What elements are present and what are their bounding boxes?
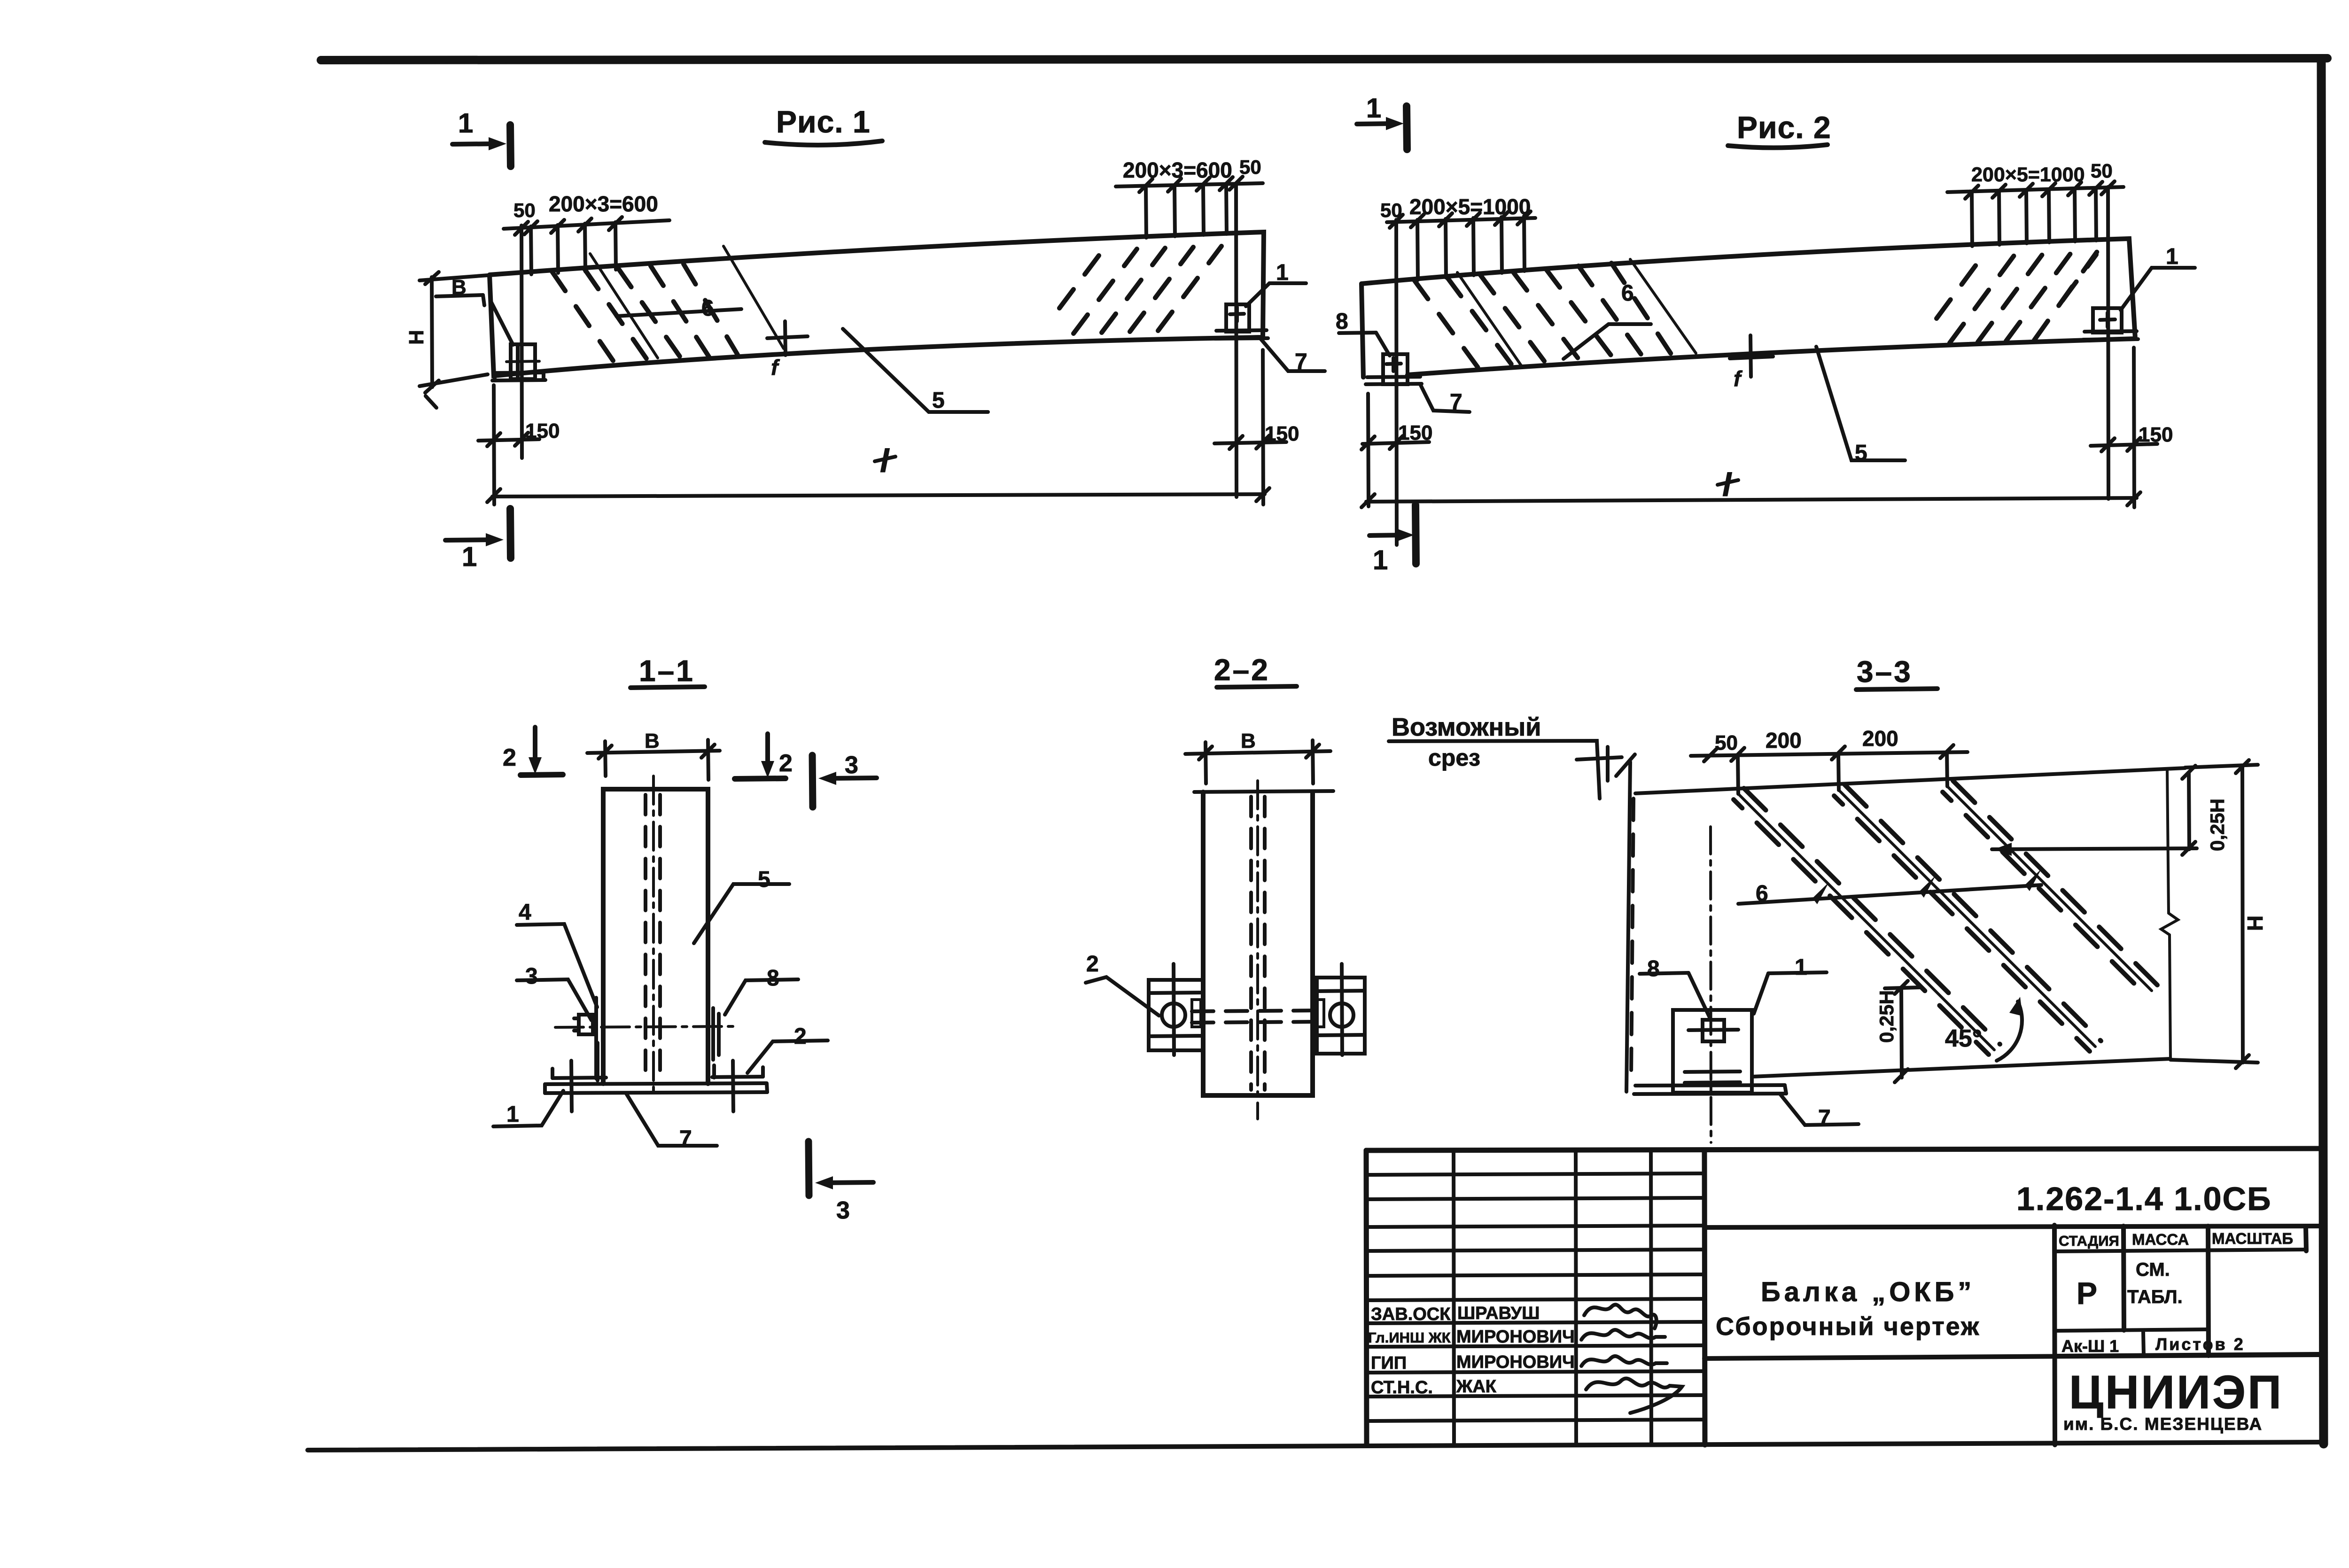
svg-text:МАСШТАБ: МАСШТАБ xyxy=(2212,1230,2293,1247)
sheet right border xyxy=(2321,61,2324,1444)
dim 150 (Fig.2 right) xyxy=(2091,348,2157,507)
beam Fig.2 outline xyxy=(1361,239,2135,375)
beam Fig.2 right support block xyxy=(2093,308,2122,333)
svg-text:МИРОНОВИЧ: МИРОНОВИЧ xyxy=(1456,1352,1575,1372)
support block (3-3) xyxy=(1673,1010,1752,1093)
svg-text:ТАБЛ.: ТАБЛ. xyxy=(2127,1287,2183,1307)
dim B (2-2) xyxy=(1185,740,1330,784)
svg-text:МИРОНОВИЧ: МИРОНОВИЧ xyxy=(1456,1327,1575,1347)
section cut mark 1 (top, Fig.2) xyxy=(1357,93,1407,149)
svg-text:Сборочный чертеж: Сборочный чертеж xyxy=(1716,1312,1980,1341)
dim 150 (Fig.1 left) xyxy=(478,385,539,505)
svg-text:5: 5 xyxy=(932,388,945,413)
leader 1 (1-1) xyxy=(493,1091,563,1126)
svg-text:ЦНИИЭП: ЦНИИЭП xyxy=(2069,1366,2283,1419)
title block left edge xyxy=(1366,1150,1367,1445)
angle 45 mark (3-3) xyxy=(1945,997,2022,1061)
right cells horizontal lines xyxy=(2054,1250,2319,1356)
beam Fig.1 left support block xyxy=(506,344,539,379)
svg-text:Гл.ИНШ ЖК: Гл.ИНШ ЖК xyxy=(1368,1329,1451,1346)
leader 6 with arrows (3-3) xyxy=(1738,869,2041,906)
svg-text:50: 50 xyxy=(513,199,536,221)
horizontal bolt axis (1-1) xyxy=(555,1026,733,1027)
svg-text:200×5=1000: 200×5=1000 xyxy=(1409,194,1531,219)
svg-text:7: 7 xyxy=(1818,1106,1831,1131)
stirrup ticks verticals (Fig.1 right) xyxy=(1146,185,1227,238)
svg-text:7: 7 xyxy=(679,1126,692,1151)
svg-text:1: 1 xyxy=(1276,260,1289,285)
sheet top border xyxy=(321,58,2327,60)
svg-text:1: 1 xyxy=(1795,955,1807,980)
svg-text:Н: Н xyxy=(405,330,428,345)
svg-text:8: 8 xyxy=(1336,309,1348,334)
svg-text:45°: 45° xyxy=(1945,1025,1982,1052)
svg-text:2: 2 xyxy=(794,1024,807,1049)
svg-text:1: 1 xyxy=(458,108,473,139)
signature 1 xyxy=(1584,1304,1657,1328)
svg-text:В: В xyxy=(1241,730,1256,753)
leader 7 (Fig.2 left) xyxy=(1420,384,1470,412)
camber mark f (Fig.2) xyxy=(1730,335,1773,377)
beam Fig.2 right support base plate xyxy=(2083,331,2138,340)
leader 6 (Fig.1) xyxy=(616,309,741,316)
leader 1 (Fig.2 right) xyxy=(2121,268,2195,310)
leader 7 (3-3) xyxy=(1780,1094,1859,1125)
hatch band left solid edges (Fig.1) xyxy=(590,246,784,358)
leader 3 (1-1) xyxy=(517,979,591,1020)
title Fig.1 xyxy=(765,104,882,145)
svg-text:1: 1 xyxy=(462,542,477,572)
right cells vertical lines xyxy=(2054,1225,2306,1445)
svg-text:2: 2 xyxy=(1086,952,1099,977)
svg-text:1: 1 xyxy=(1366,93,1381,124)
beam Fig.2 left edge xyxy=(1361,284,1363,377)
svg-text:200: 200 xyxy=(1766,728,1802,753)
leader 2 (1-1) xyxy=(747,1040,828,1073)
svg-text:3–3: 3–3 xyxy=(1857,655,1913,689)
svg-text:3: 3 xyxy=(836,1197,850,1224)
svg-text:200×3=600: 200×3=600 xyxy=(549,192,658,216)
svg-text:2: 2 xyxy=(779,750,793,777)
stirrup diagonal band B (3-3) xyxy=(1834,784,2101,1051)
svg-text:150: 150 xyxy=(525,419,560,442)
hidden channel edges dashed (2-2) xyxy=(1251,797,1265,1090)
svg-text:ЗАВ.ОСК: ЗАВ.ОСК xyxy=(1371,1304,1451,1324)
section cut mark 3 (top right of 1-1) xyxy=(812,752,877,807)
svg-text:Рис. 2: Рис. 2 xyxy=(1737,110,1831,145)
svg-text:СТ.Н.С.: СТ.Н.С. xyxy=(1371,1378,1433,1397)
camber mark f (Fig.1) xyxy=(767,321,808,355)
column web outline (1-1) xyxy=(603,789,708,1084)
svg-text:Н: Н xyxy=(2243,916,2267,931)
section cut mark 1 (bottom, Fig.1) xyxy=(445,509,511,572)
svg-text:200: 200 xyxy=(1862,726,1898,751)
leader 6 (Fig.2) xyxy=(1563,324,1651,359)
support axis line (Fig.1 right) xyxy=(1236,183,1237,497)
svg-text:3: 3 xyxy=(525,964,538,989)
beam Fig.1 outline xyxy=(490,232,1264,376)
cut mark slashes at corner (3-3) xyxy=(1616,754,1635,776)
svg-text:5: 5 xyxy=(758,867,770,892)
svg-text:3: 3 xyxy=(845,752,858,779)
svg-text:6: 6 xyxy=(701,296,714,321)
column web outline (2-2) xyxy=(1203,792,1313,1095)
support axis (3-3) xyxy=(1711,827,1711,1142)
svg-text:Ак-Ш 1: Ак-Ш 1 xyxy=(2061,1336,2119,1356)
signature 3 xyxy=(1581,1356,1667,1366)
svg-text:5: 5 xyxy=(1855,441,1867,466)
support axis line (Fig.2 right) xyxy=(2108,187,2108,499)
signature 4 xyxy=(1586,1378,1682,1413)
staff table column lines xyxy=(1454,1150,1651,1445)
leader 1 (Fig.1 right) xyxy=(1246,283,1306,306)
svg-text:ШРАВУШ: ШРАВУШ xyxy=(1457,1304,1540,1323)
svg-text:СМ.: СМ. xyxy=(2136,1259,2170,1280)
beam Fig.1 right support block xyxy=(1226,304,1249,332)
beam Fig.1 right support base plate xyxy=(1215,330,1268,339)
title block outer top line xyxy=(1366,1149,2321,1150)
leader 8 (1-1) xyxy=(725,979,798,1015)
leader 2 (2-2) xyxy=(1086,977,1159,1016)
title 1-1 xyxy=(630,654,705,688)
name cell bottom line xyxy=(1704,1355,2319,1358)
svg-text:ЖАК: ЖАК xyxy=(1456,1377,1497,1397)
svg-text:6: 6 xyxy=(1621,281,1634,306)
right clamp angle (2-2) xyxy=(1317,964,1365,1055)
stirrup ticks verticals (Fig.2 left) xyxy=(1417,216,1525,280)
svg-text:2–2: 2–2 xyxy=(1214,653,1270,687)
note leader to cut mark xyxy=(1389,741,1600,799)
left anchor angle (1-1) xyxy=(552,1043,606,1080)
dim 150 (Fig.1 right) xyxy=(1214,350,1286,505)
svg-text:Р: Р xyxy=(2077,1276,2097,1311)
leader 8 (Fig.2 left) xyxy=(1336,309,1390,356)
svg-text:150: 150 xyxy=(1265,422,1299,445)
svg-text:8: 8 xyxy=(767,966,779,991)
hidden edge dashed (3-3 left) xyxy=(1631,799,1633,1076)
svg-text:1: 1 xyxy=(506,1102,519,1127)
svg-text:6: 6 xyxy=(1756,881,1768,906)
svg-text:ГИП: ГИП xyxy=(1371,1353,1407,1373)
name cell top line xyxy=(1704,1226,2321,1227)
svg-text:7: 7 xyxy=(1295,349,1307,374)
top flange edge (2-2) xyxy=(1194,791,1333,792)
svg-text:0,25Н: 0,25Н xyxy=(2206,799,2228,851)
section cut mark 2 (left of 1-1) xyxy=(503,727,563,775)
dim 0.25H (3-3 top right) xyxy=(1992,766,2197,856)
svg-text:В: В xyxy=(645,730,660,753)
svg-text:1: 1 xyxy=(1373,545,1388,575)
base plate (3-3) xyxy=(1634,1085,1786,1094)
dim B (1-1) xyxy=(587,740,720,780)
svg-text:МАССА: МАССА xyxy=(2132,1231,2189,1248)
section cut mark 3 (bottom right of 1-1) xyxy=(809,1141,873,1224)
dim line L (Fig.2) xyxy=(1361,492,2140,507)
dim line 50 200x3=600 (Fig.1 left) xyxy=(504,217,669,235)
leader 5 (1-1) xyxy=(694,884,789,943)
svg-text:Возможный: Возможный xyxy=(1392,713,1541,741)
leader 7 (Fig.1 right) xyxy=(1261,339,1325,371)
svg-text:8: 8 xyxy=(1647,956,1660,981)
stirrup ticks verticals (Fig.1 left) xyxy=(531,222,616,274)
base plate (1-1) xyxy=(545,1083,767,1093)
svg-text:Листов 2: Листов 2 xyxy=(2155,1335,2245,1354)
top dim line 50 200 200 (3-3) xyxy=(1691,745,1968,761)
beam Fig.1 left support base plate xyxy=(492,373,545,380)
svg-text:Балка „ОКБ”: Балка „ОКБ” xyxy=(1761,1277,1975,1307)
svg-text:50: 50 xyxy=(2091,160,2113,182)
hidden bolt lines dashed (2-2) xyxy=(1192,1010,1325,1023)
dim line 200x5=1000 50 (Fig.2 right) xyxy=(1947,181,2123,199)
title 2-2 xyxy=(1214,653,1297,687)
stirrup ticks verticals (Fig.2 right) xyxy=(1972,189,2096,246)
section cut mark 2 (right of 1-1) xyxy=(735,734,793,779)
stirrup start ext lines (3-3) xyxy=(1738,752,1947,794)
svg-text:7: 7 xyxy=(1450,390,1462,415)
leader 4 (1-1) xyxy=(517,924,597,1007)
svg-text:срез: срез xyxy=(1428,745,1480,771)
svg-text:200×3=600: 200×3=600 xyxy=(1123,158,1232,182)
svg-text:СТАДИЯ: СТАДИЯ xyxy=(2059,1233,2119,1249)
stirrup diagonal band C (3-3) xyxy=(1943,781,2157,995)
svg-text:1: 1 xyxy=(2166,244,2178,269)
staff table / name cell divider xyxy=(1704,1150,1705,1445)
hatch band left (Fig.2) xyxy=(1414,263,1672,370)
stirrup diagonal band A (3-3) xyxy=(1734,788,2000,1055)
dim 0.25H (3-3 bottom) xyxy=(1885,981,1920,1082)
beam Fig.2 left support block xyxy=(1383,354,1408,384)
svg-text:50: 50 xyxy=(1380,199,1402,221)
svg-text:50: 50 xyxy=(1239,156,1261,178)
svg-text:им. Б.С. МЕЗЕНЦЕВА: им. Б.С. МЕЗЕНЦЕВА xyxy=(2063,1414,2263,1434)
dim line 200x3=600 50 (Fig.1 right) xyxy=(1116,177,1263,192)
svg-text:1.262-1.4 1.0СБ: 1.262-1.4 1.0СБ xyxy=(2016,1180,2271,1217)
svg-text:1–1: 1–1 xyxy=(639,654,695,688)
left bolted splice plate (1-1) xyxy=(574,998,596,1079)
beam end outline (3-3) xyxy=(1626,762,2185,1092)
beam Fig.1 left end embed diagonal xyxy=(490,301,513,345)
section cut mark 1 (bottom, Fig.2) xyxy=(1369,505,1416,575)
section cut mark 1 (top, Fig.1) xyxy=(452,108,511,166)
right anchor angle (1-1) xyxy=(712,1065,763,1078)
dim B bracket (Fig.1 left top) xyxy=(436,295,484,305)
hatch band left (Fig.1) xyxy=(552,264,738,365)
svg-text:150: 150 xyxy=(1398,421,1432,444)
dim line L (Fig.1) xyxy=(487,488,1269,502)
svg-text:150: 150 xyxy=(2139,423,2173,446)
dim 150 (Fig.2 left) xyxy=(1361,394,1429,506)
leader 8 (3-3) xyxy=(1640,956,1711,1020)
hatch band right (Fig.2) xyxy=(1937,251,2098,343)
hidden channel edges dashed (1-1) xyxy=(646,795,660,1080)
svg-text:200×5=1000: 200×5=1000 xyxy=(1971,163,2085,186)
svg-text:4: 4 xyxy=(519,900,531,925)
svg-text:Рис. 1: Рис. 1 xyxy=(776,104,871,139)
left clamp angle (2-2) xyxy=(1149,964,1203,1055)
support axis line (Fig.1 left) xyxy=(521,225,522,458)
leader 5 (Fig.2) xyxy=(1816,347,1905,460)
right splice plate (1-1) xyxy=(713,1008,719,1060)
leader 1 (3-3) xyxy=(1754,955,1827,1014)
vertical axis (2-2) xyxy=(1256,781,1259,1119)
dim line 50 200x5=1000 (Fig.2 left) xyxy=(1387,211,1535,228)
hatch band right (Fig.1) xyxy=(1059,246,1221,334)
title Fig.2 xyxy=(1728,110,1831,148)
leader 7 (1-1) xyxy=(626,1094,717,1146)
support axis line (Fig.2 left) xyxy=(1396,220,1397,545)
beam Fig.2 left support base plate xyxy=(1366,377,1422,384)
signature 2 xyxy=(1581,1330,1665,1340)
dim H (3-3 right) xyxy=(2170,760,2258,1068)
staff table row lines xyxy=(1366,1173,1704,1421)
anchor bolt axes (1-1) xyxy=(571,1061,733,1111)
leader 5 (Fig.1) xyxy=(843,329,988,412)
sheet bottom border xyxy=(308,1442,2321,1450)
svg-text:2: 2 xyxy=(503,744,516,771)
title 3-3 xyxy=(1856,655,1937,690)
break line with zigzag (3-3 right) xyxy=(2161,770,2178,1060)
dim H (Fig.1 left) xyxy=(420,272,488,408)
vertical axis (1-1) xyxy=(652,776,655,1095)
hatch band left solid edges (Fig.2) xyxy=(1457,259,1696,367)
svg-text:0,25Н: 0,25Н xyxy=(1875,990,1898,1043)
svg-text:50: 50 xyxy=(1715,731,1738,754)
